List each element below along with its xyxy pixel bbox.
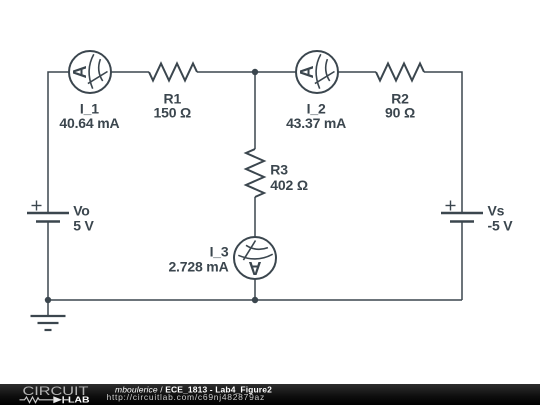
resistor R1 zigzag: [149, 64, 197, 81]
battery Vo plus sign: [32, 201, 42, 211]
wire left vertical top + top-left segment: [48, 72, 69, 213]
footer bar: [0, 384, 540, 405]
ground: [31, 316, 66, 330]
battery Vs plus sign: [446, 201, 456, 211]
wire bottom horizontal: [48, 299, 462, 301]
svg-text:Vo: Vo: [73, 203, 90, 219]
svg-text:LAB: LAB: [68, 396, 90, 405]
resistor R3 zigzag: [246, 149, 264, 197]
svg-text:Vs: Vs: [488, 203, 505, 219]
svg-text:-5 V: -5 V: [488, 217, 514, 233]
wire I2 to R2: [338, 71, 376, 73]
svg-text:I_2: I_2: [307, 100, 326, 116]
ammeter I3: [234, 237, 276, 279]
svg-text:402 Ω: 402 Ω: [270, 177, 308, 193]
wire R3 to I3: [254, 197, 256, 237]
resistor R2 zigzag: [376, 64, 424, 81]
node A junction dot: [252, 69, 258, 75]
ammeter I2: [296, 51, 338, 93]
svg-text:40.64 mA: 40.64 mA: [59, 115, 119, 131]
battery Vs plates: [441, 213, 483, 222]
battery Vo plates: [27, 213, 69, 222]
wire I3 to bottom node: [254, 279, 256, 300]
wire R1 to I2 through node A: [197, 71, 296, 73]
node ground junction dot: [45, 297, 51, 303]
logo resistor squiggle: [20, 397, 54, 403]
wire Vo bottom to ground: [47, 222, 49, 317]
svg-text:90 Ω: 90 Ω: [385, 105, 415, 121]
svg-text:http://circuitlab.com/c69nj482: http://circuitlab.com/c69nj482879az: [107, 392, 265, 402]
svg-text:I_1: I_1: [80, 100, 99, 116]
ammeter I1: [69, 51, 111, 93]
svg-text:43.37 mA: 43.37 mA: [286, 115, 346, 131]
svg-text:R3: R3: [270, 162, 288, 178]
svg-text:150 Ω: 150 Ω: [154, 105, 192, 121]
svg-text:5 V: 5 V: [73, 217, 94, 233]
svg-text:2.728 mA: 2.728 mA: [168, 258, 228, 274]
wire node A down to R3: [254, 72, 256, 149]
wire R2 to right corner down to Vs: [424, 72, 462, 213]
wire I1 to R1: [111, 71, 149, 73]
svg-text:I_3: I_3: [210, 243, 229, 259]
node bottom-middle junction dot: [252, 297, 258, 303]
logo diode: [53, 396, 62, 403]
wire Vs bottom to bottom-right corner: [461, 222, 463, 301]
